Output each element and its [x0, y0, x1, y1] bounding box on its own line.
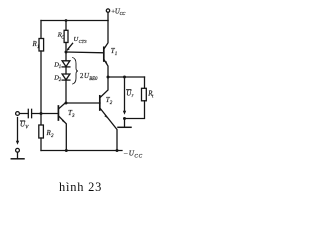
- label 2U_BE0 with brace: [73, 58, 98, 85]
- caption hinh 23: [59, 180, 102, 195]
- node T2 emitter on rail: [116, 149, 119, 152]
- wire input / T3 base: [19, 113, 58, 115]
- svg-text:t: t: [152, 95, 154, 100]
- resistor RC: [57, 21, 68, 53]
- label U_CT3 with arrow: [67, 36, 88, 51]
- ground input: [11, 148, 24, 158]
- wire T2 base: [66, 102, 100, 104]
- node T3 emitter on rail: [65, 149, 68, 152]
- svg-text:BE0: BE0: [89, 77, 98, 82]
- transistor T1: [104, 21, 118, 78]
- wire bottom supply rail: [41, 150, 122, 152]
- svg-text:1: 1: [37, 45, 40, 50]
- wire D1 to D2: [65, 67, 67, 74]
- node B: T2 base / T3 collector / diode junction: [65, 102, 68, 105]
- svg-text:1: 1: [59, 65, 61, 70]
- wire T1 base: [66, 51, 104, 54]
- transistor T2: [100, 77, 117, 151]
- resistor R1: [32, 21, 44, 114]
- ground output: [118, 119, 131, 128]
- label Ur with arrow: [123, 79, 134, 115]
- svg-text:CC: CC: [134, 153, 143, 159]
- svg-text:2: 2: [110, 101, 113, 106]
- transistor T3: [58, 103, 75, 150]
- resistor R2: [39, 114, 54, 151]
- wire D2 to node B: [65, 80, 67, 103]
- node junction RC-rail: [65, 19, 68, 22]
- label +Ucc: [111, 8, 125, 16]
- label Uv with arrow: [16, 118, 29, 145]
- node Ur bottom junction: [123, 117, 126, 120]
- wire node A to diode D1: [65, 52, 67, 61]
- svg-text:2: 2: [59, 78, 62, 83]
- svg-text:r: r: [132, 94, 134, 99]
- wire output to load: [108, 76, 145, 78]
- diode D2: [53, 74, 70, 83]
- node A: T1 base / RC / diode junction: [65, 51, 68, 54]
- diode D1: [53, 61, 70, 70]
- node output: T1 emitter / T2 collector junction: [107, 76, 110, 79]
- capacitor C input coupling: [28, 109, 31, 117]
- svg-text:2: 2: [51, 134, 54, 139]
- svg-text:CC: CC: [120, 11, 126, 16]
- node output tap for Ur: [123, 76, 126, 79]
- terminal input: [16, 112, 20, 116]
- resistor Rt: [125, 77, 155, 119]
- svg-text:1: 1: [115, 52, 118, 57]
- wire top supply rail: [41, 20, 108, 22]
- node input junction: [40, 112, 43, 115]
- svg-text:3: 3: [72, 114, 75, 119]
- svg-text:–: –: [123, 149, 128, 157]
- svg-text:CT3: CT3: [79, 39, 88, 44]
- terminal +Ucc: [106, 9, 109, 21]
- label -Ucc: [123, 149, 143, 159]
- svg-text:V: V: [25, 125, 29, 130]
